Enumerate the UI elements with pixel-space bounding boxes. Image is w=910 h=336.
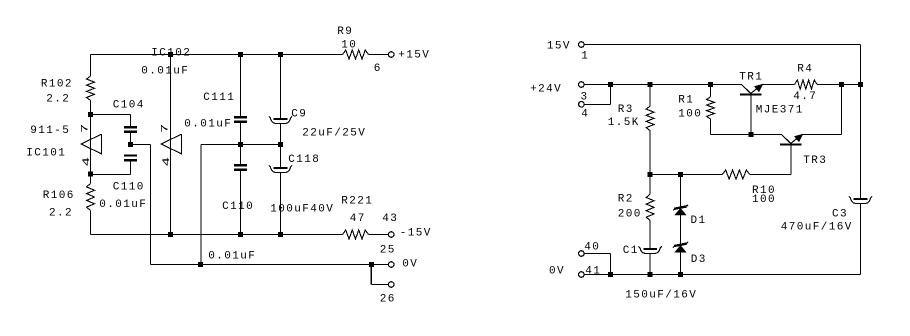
label C9 value 22uF/25V <box>302 127 366 139</box>
wire TR rail <box>711 85 842 135</box>
transistor TR1 <box>740 84 762 95</box>
svg-text:0V: 0V <box>402 258 418 270</box>
op-amp IC101 <box>81 134 101 154</box>
wire R106 bottom lead <box>90 211 92 235</box>
label C110 value 0.01uF <box>99 199 147 211</box>
node junction R3 top <box>648 82 653 87</box>
label D1 <box>691 215 707 227</box>
terminal 0V left <box>388 262 394 268</box>
label pin 40 <box>584 241 600 253</box>
wire R2 bottom lead <box>649 221 651 249</box>
pin 7 IC101 <box>79 122 90 133</box>
label C1 value 150uF/16V <box>625 289 697 301</box>
wire R102 top lead <box>90 55 92 77</box>
resistor R9 <box>343 50 369 59</box>
node junction 0V branch <box>369 262 374 267</box>
node junction 15V/C3 column <box>858 82 863 87</box>
label D3 <box>691 254 707 266</box>
svg-text:2.2: 2.2 <box>49 207 73 219</box>
svg-text:1.5K: 1.5K <box>608 117 640 129</box>
label C110 mid <box>222 201 254 213</box>
label C9 <box>291 108 307 120</box>
label TR3 <box>803 155 827 167</box>
svg-text:150uF/16V: 150uF/16V <box>625 289 697 301</box>
svg-text:7: 7 <box>159 122 170 133</box>
wire 15V line <box>585 45 861 199</box>
label R10 <box>752 185 776 197</box>
label R102 <box>41 79 73 91</box>
label pin 4 <box>581 109 589 121</box>
resistor R3 <box>646 106 654 131</box>
svg-text:MJE371: MJE371 <box>756 105 804 117</box>
svg-text:40: 40 <box>584 241 600 253</box>
label C1 <box>623 245 639 257</box>
svg-text:R9: R9 <box>337 26 353 38</box>
label C110 left <box>113 181 145 193</box>
terminal pin 40 <box>579 251 585 257</box>
svg-text:R2: R2 <box>618 194 634 206</box>
capacitor C110 mid <box>234 164 247 171</box>
svg-text:C118: C118 <box>288 154 320 166</box>
wire D1 top lead <box>680 175 682 207</box>
terminal -15V <box>388 232 394 238</box>
svg-text:IC101: IC101 <box>26 147 66 159</box>
node junction R1 top <box>708 82 713 87</box>
label pin 26 <box>380 293 396 305</box>
label 15V <box>547 40 571 52</box>
label R4 value 4.7 <box>793 91 817 103</box>
label R106 value 2.2 <box>49 207 73 219</box>
label R221 value 47 <box>350 213 366 225</box>
label pin 3 <box>581 91 589 103</box>
resistor R2 <box>646 194 654 220</box>
wire R102 bottom lead <box>90 101 92 115</box>
label 0.01uF bottom <box>208 250 256 262</box>
svg-text:100: 100 <box>752 194 776 206</box>
svg-text:7: 7 <box>79 122 90 133</box>
diode D3 <box>673 242 688 252</box>
wire R2 top lead <box>649 175 651 195</box>
wire R10 left link <box>650 174 722 176</box>
svg-text:100: 100 <box>678 108 702 120</box>
svg-text:47: 47 <box>350 213 366 225</box>
label +15V <box>398 49 430 61</box>
wire IC101 supply line <box>90 115 92 175</box>
wire 0V rail <box>585 274 861 276</box>
wire pin4 link <box>585 85 611 105</box>
label R3 <box>618 104 634 116</box>
capacitor C110 left <box>124 154 137 161</box>
wire TR1 base lead <box>750 96 752 135</box>
wire IC102 supply line <box>170 55 172 235</box>
node junction mid net <box>198 262 203 267</box>
wire mid net <box>201 145 281 265</box>
svg-text:0.01uF: 0.01uF <box>184 118 232 130</box>
capacitor C9 <box>269 116 293 123</box>
capacitor C111 <box>234 116 247 123</box>
wire R3 top lead <box>649 85 651 107</box>
node junction C9 top <box>278 52 283 57</box>
wire C104 bottom lead <box>130 133 132 144</box>
svg-text:0V: 0V <box>549 265 565 277</box>
svg-text:R4: R4 <box>797 63 813 75</box>
svg-text:C3: C3 <box>832 209 848 221</box>
svg-text:100uF40V: 100uF40V <box>270 203 334 215</box>
wire C3 bottom lead <box>860 203 862 274</box>
node junction C1/0V <box>648 272 653 277</box>
resistor R1 <box>707 97 715 119</box>
wire C110 bottom link <box>91 161 131 174</box>
wire output link <box>131 145 151 265</box>
svg-text:C111: C111 <box>203 92 235 104</box>
svg-text:C110: C110 <box>222 201 254 213</box>
capacitor C104 <box>124 126 137 133</box>
svg-text:4.7: 4.7 <box>793 91 817 103</box>
svg-text:R3: R3 <box>618 104 634 116</box>
terminal pin 26 <box>388 282 394 288</box>
node junction D3/0V <box>678 272 683 277</box>
wire R1 bottom lead <box>710 119 712 134</box>
svg-text:2.2: 2.2 <box>46 93 70 105</box>
label IC102 value 0.01uF <box>141 66 189 78</box>
label R102 value 2.2 <box>46 93 70 105</box>
wire D1-D3 link <box>680 214 682 244</box>
resistor R221 <box>343 230 369 239</box>
svg-text:0.01uF: 0.01uF <box>99 199 147 211</box>
node junction IC102 bottom <box>168 232 173 237</box>
resistor R106 <box>87 184 95 211</box>
svg-text:4: 4 <box>81 155 92 166</box>
label C111 value 0.01uF <box>184 118 232 130</box>
pin 4 IC101 <box>81 155 92 166</box>
svg-text:22uF/25V: 22uF/25V <box>302 127 366 139</box>
label pin 1 <box>581 51 589 63</box>
svg-text:D3: D3 <box>691 254 707 266</box>
wire TR3 base lead <box>750 146 791 175</box>
resistor R102 <box>87 76 95 101</box>
transistor TR3 <box>780 134 802 145</box>
svg-text:C104: C104 <box>113 99 145 111</box>
label TR1 <box>739 71 763 83</box>
label 911-5 <box>30 125 70 137</box>
svg-text:26: 26 <box>380 293 396 305</box>
node junction C111 bottom <box>238 232 243 237</box>
wire C9 line <box>280 55 282 235</box>
label R106 <box>43 190 75 202</box>
wire R106 top lead <box>90 175 92 184</box>
node junction C111 mid <box>238 142 243 147</box>
svg-text:C1: C1 <box>623 245 639 257</box>
label C118 value 100uF40V <box>270 203 334 215</box>
pin 4 IC102 <box>161 155 172 166</box>
node junction C111 top <box>238 52 243 57</box>
label R9 <box>337 26 353 38</box>
op-amp IC102 <box>161 134 181 154</box>
label +24V <box>530 84 562 96</box>
svg-text:6: 6 <box>374 63 382 75</box>
label C118 <box>288 154 320 166</box>
node junction C104/C110 <box>128 142 133 147</box>
svg-text:25: 25 <box>380 244 396 256</box>
label R1 <box>678 94 694 106</box>
node junction pin40/0V <box>608 272 613 277</box>
svg-text:R221: R221 <box>341 195 373 207</box>
svg-text:10: 10 <box>341 39 357 51</box>
terminal pin 4 <box>579 102 585 108</box>
svg-text:4: 4 <box>581 109 589 121</box>
label R2 <box>618 194 634 206</box>
node junction C118 bottom <box>278 232 283 237</box>
node junction TR1 base <box>748 132 753 137</box>
node junction IC101 pin4 <box>88 172 93 177</box>
svg-text:15V: 15V <box>547 40 571 52</box>
svg-text:TR3: TR3 <box>803 155 827 167</box>
resistor R10 <box>722 170 750 179</box>
wire D3 bottom lead <box>680 251 682 274</box>
svg-text:+15V: +15V <box>398 49 430 61</box>
node junction pin4 <box>608 82 613 87</box>
label C111 <box>203 92 235 104</box>
svg-text:C110: C110 <box>113 181 145 193</box>
wire C1 bottom lead <box>649 253 651 274</box>
svg-text:R106: R106 <box>43 190 75 202</box>
label R3 value 1.5K <box>608 117 640 129</box>
svg-text:-15V: -15V <box>400 227 432 239</box>
label IC101 <box>26 147 66 159</box>
wire 0V line <box>151 264 389 266</box>
label MJE371 <box>756 105 804 117</box>
svg-text:D1: D1 <box>691 215 707 227</box>
label pin 43 <box>382 213 398 225</box>
svg-text:43: 43 <box>382 213 398 225</box>
wire +24V rail <box>585 84 861 86</box>
svg-text:1: 1 <box>581 51 589 63</box>
node junction C9 mid <box>278 142 283 147</box>
wire -15V rail <box>91 234 389 236</box>
label R2 value 200 <box>618 209 642 221</box>
terminal +15V <box>388 52 394 58</box>
label IC102 <box>151 48 191 60</box>
capacitor C1 <box>638 246 662 253</box>
label -15V <box>400 227 432 239</box>
resistor R4 <box>795 80 818 89</box>
svg-text:0.01uF: 0.01uF <box>141 66 189 78</box>
diode D1 <box>673 205 688 215</box>
wire pin26 branch <box>371 265 388 285</box>
pin 7 IC102 <box>159 122 170 133</box>
terminal +24V pin3 <box>579 82 585 88</box>
svg-text:R102: R102 <box>41 79 73 91</box>
svg-text:C9: C9 <box>291 108 307 120</box>
label R10 value 100 <box>752 194 776 206</box>
capacitor C118 <box>269 165 293 172</box>
wire +15V rail <box>91 54 389 56</box>
svg-text:470uF/16V: 470uF/16V <box>781 221 853 233</box>
label 0V left <box>402 258 418 270</box>
label R9 value 10 <box>341 39 357 51</box>
svg-text:41: 41 <box>585 265 601 277</box>
svg-text:TR1: TR1 <box>739 71 763 83</box>
label C104 <box>113 99 145 111</box>
label R4 <box>797 63 813 75</box>
wire R3 bottom lead <box>649 131 651 175</box>
node junction IC102 top <box>168 52 173 57</box>
label 0V right <box>549 265 565 277</box>
node junction R102/IC101 <box>88 112 93 117</box>
node junction R4 right <box>839 82 844 87</box>
label C3 value 470uF/16V <box>781 221 853 233</box>
wire C104 top link <box>91 115 131 127</box>
label C3 <box>832 209 848 221</box>
label pin 25 <box>380 244 396 256</box>
svg-text:4: 4 <box>161 155 172 166</box>
svg-text:911-5: 911-5 <box>30 125 70 137</box>
label R221 <box>341 195 373 207</box>
terminal 15V <box>579 42 585 48</box>
label R1 value 100 <box>678 108 702 120</box>
wire C111 line <box>240 55 242 235</box>
label pin 41 <box>585 265 601 277</box>
node junction D1 top <box>678 172 683 177</box>
terminal 0V pin 41 <box>579 272 585 278</box>
capacitor C3 <box>849 196 873 203</box>
wire pin40 link <box>585 254 611 275</box>
svg-text:0.01uF: 0.01uF <box>208 250 256 262</box>
svg-text:R1: R1 <box>678 94 694 106</box>
svg-text:+24V: +24V <box>530 84 562 96</box>
node junction R2 top <box>648 172 653 177</box>
label pin 6 <box>374 63 382 75</box>
wire R1 top lead <box>710 85 712 97</box>
svg-text:200: 200 <box>618 209 642 221</box>
